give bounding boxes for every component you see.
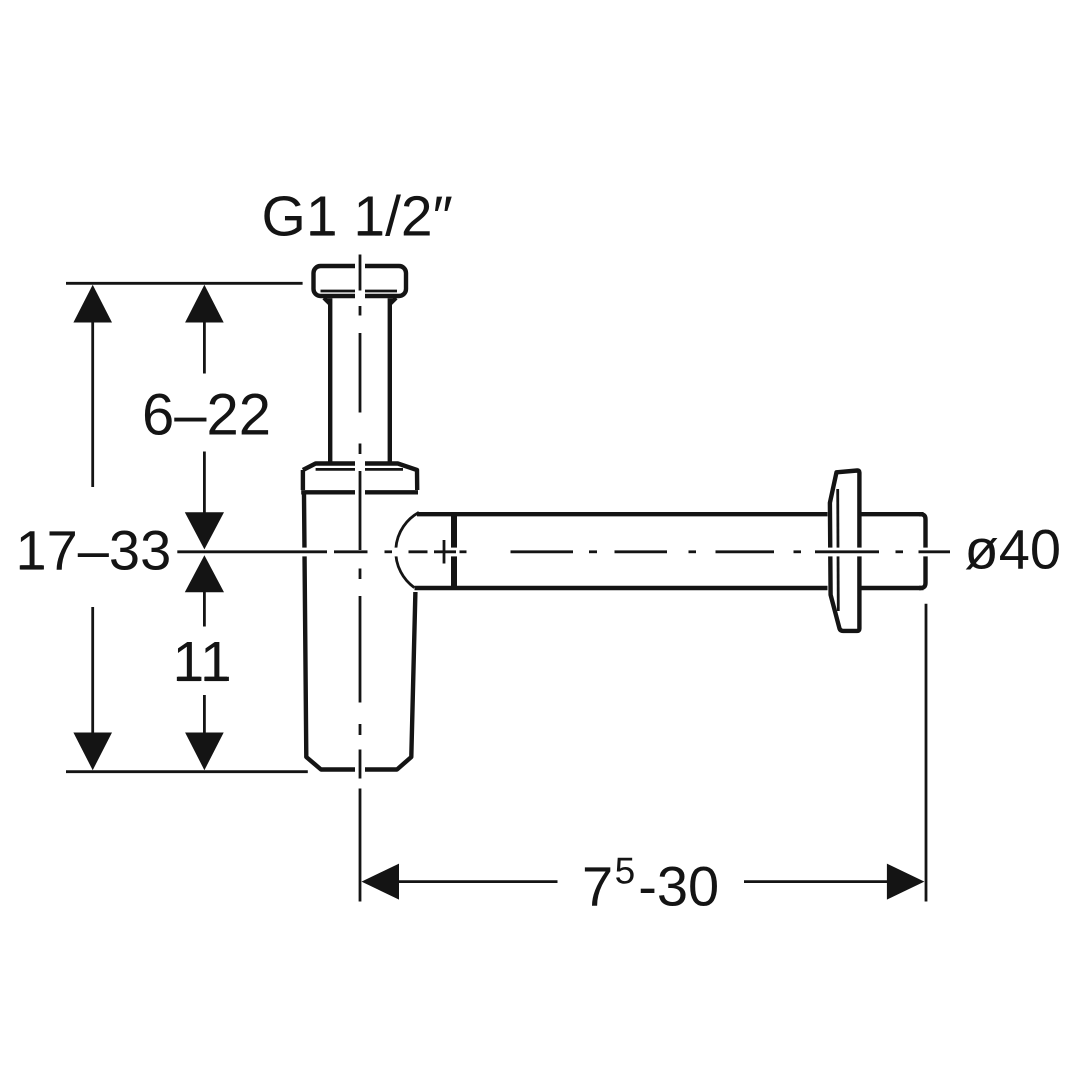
svg-text:6–22: 6–22 <box>142 383 271 448</box>
svg-text:ø40: ø40 <box>965 518 1062 581</box>
svg-text:11: 11 <box>173 630 232 694</box>
svg-text:17–33: 17–33 <box>16 519 172 582</box>
svg-text:G1 1/2″: G1 1/2″ <box>262 185 453 249</box>
svg-text:75-30: 75-30 <box>582 851 719 918</box>
